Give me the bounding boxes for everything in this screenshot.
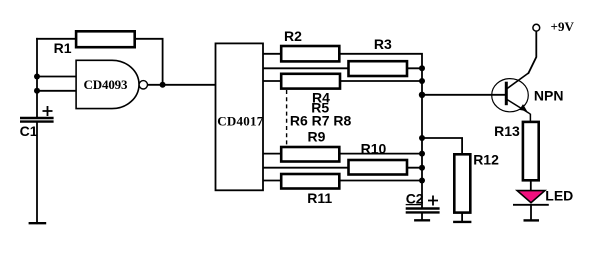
svg-text:+9V: +9V [551, 19, 575, 34]
svg-text:R3: R3 [374, 36, 392, 52]
svg-text:NPN: NPN [534, 87, 564, 103]
svg-text:CD4093: CD4093 [84, 77, 129, 92]
svg-text:C1: C1 [20, 123, 38, 139]
svg-text:R1: R1 [54, 40, 72, 56]
svg-text:R12: R12 [473, 152, 499, 168]
svg-text:R6 R7 R8: R6 R7 R8 [290, 113, 352, 129]
svg-text:LED: LED [545, 188, 573, 204]
svg-text:R2: R2 [284, 28, 302, 44]
svg-text:CD4017: CD4017 [217, 114, 264, 129]
svg-text:R9: R9 [308, 129, 326, 145]
svg-text:C2: C2 [406, 190, 424, 206]
svg-text:R10: R10 [361, 141, 387, 157]
svg-text:R13: R13 [494, 123, 520, 139]
svg-text:R11: R11 [307, 190, 332, 206]
